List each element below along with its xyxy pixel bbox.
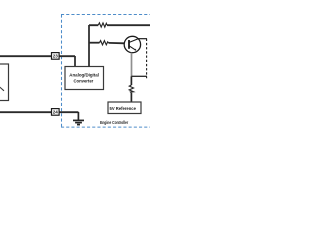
wire: R3 to 5V reference box xyxy=(130,93,132,102)
wire: collector stub xyxy=(138,38,147,40)
svg-text:23: 23 xyxy=(53,54,59,59)
connector pin 24 xyxy=(52,109,60,116)
transistor Q1 (NPN) xyxy=(124,36,140,52)
A/D converter box U1 xyxy=(65,67,104,90)
wire: collector dashed drop xyxy=(146,39,148,79)
resistor R3 (vertical) xyxy=(129,85,133,93)
wire: node down to R3 xyxy=(130,76,132,85)
sensor variable-resistor arrow tip xyxy=(0,86,4,91)
wire: emitter node horizontal xyxy=(131,75,147,77)
wire: pull-up junction vertical xyxy=(88,25,90,67)
engine controller dashed boundary (top edge) xyxy=(61,14,150,16)
wire: top supply feed xyxy=(89,24,98,26)
sensor box (cut off at left edge) xyxy=(0,64,9,101)
wire: emitter drop (gray) xyxy=(131,53,133,77)
resistor R1 (pull-up) xyxy=(98,23,107,27)
svg-text:Engine Controller: Engine Controller xyxy=(100,120,128,125)
ground xyxy=(73,120,84,124)
wire: sensor ground return to connector pin 24 xyxy=(0,111,78,113)
svg-text:24: 24 xyxy=(53,110,59,115)
wire: sensor signal to connector pin 23 xyxy=(0,55,75,57)
5V reference box xyxy=(108,102,141,114)
resistor R2 (base) xyxy=(100,41,109,45)
engine controller dashed boundary (bottom edge) xyxy=(61,126,150,128)
wire: junction to R2 xyxy=(89,42,100,44)
svg-text:5V Reference: 5V Reference xyxy=(110,106,137,111)
connector pin 23 xyxy=(52,53,60,60)
svg-text:Converter: Converter xyxy=(74,79,94,85)
wire: signal drop into A/D converter xyxy=(74,56,76,67)
svg-text:Analog/Digital: Analog/Digital xyxy=(69,73,99,79)
engine controller dashed boundary (left edge) xyxy=(61,15,63,128)
wire: R1 to supply (off image right) xyxy=(107,24,150,26)
wire: R2 to transistor base xyxy=(109,42,125,44)
wire: ground drop xyxy=(77,112,79,120)
